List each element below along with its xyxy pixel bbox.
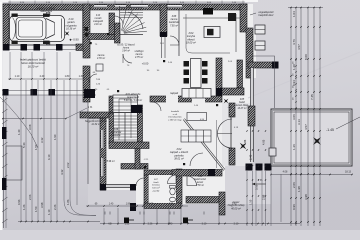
svg-text:13.27 m²: 13.27 m² xyxy=(237,107,246,110)
svg-text:1.70: 1.70 xyxy=(149,204,154,206)
dimension line carport xyxy=(8,78,90,80)
white margin top xyxy=(0,0,258,2)
wall top exterior xyxy=(3,4,247,10)
wall stair hall west xyxy=(115,23,121,43)
wc fixture mosdo xyxy=(85,27,89,31)
dimension line south wall xyxy=(86,205,204,214)
pier carport south 3 xyxy=(49,89,56,96)
svg-text:1.26: 1.26 xyxy=(22,204,26,210)
svg-text:11.32 m²: 11.32 m² xyxy=(91,123,100,126)
window F.06 west 1 xyxy=(101,130,104,148)
room label F.05 xyxy=(236,99,249,110)
kitchen counter top xyxy=(183,13,240,52)
svg-text:1.86: 1.86 xyxy=(126,204,131,206)
wall bathroom south xyxy=(144,203,181,209)
dim number carport 4 xyxy=(79,75,84,78)
dimension numbers bottom xyxy=(108,223,239,226)
svg-text:terasz kőlap: terasz kőlap xyxy=(236,104,249,107)
dimension line lower-left with leader xyxy=(2,108,87,119)
wall stair east xyxy=(138,105,143,142)
small label 05 xyxy=(93,72,96,74)
terrace outline inner xyxy=(274,112,349,163)
wall F.06 east xyxy=(135,148,140,169)
pillar terrace row 3 xyxy=(265,164,272,171)
pier garage south 4 xyxy=(56,44,63,51)
wall living-terrace below door xyxy=(229,148,235,165)
wall kamra-kitchen thin xyxy=(178,10,180,56)
room label F.01 xyxy=(124,93,142,102)
shower corner covered terrace xyxy=(187,176,197,186)
svg-text:1.90: 1.90 xyxy=(53,134,57,140)
svg-text:3.10: 3.10 xyxy=(255,184,259,190)
dimension line terrace south xyxy=(270,174,353,176)
label garage header xyxy=(37,7,57,13)
svg-text:2.06: 2.06 xyxy=(28,194,32,200)
fence post dark 1 xyxy=(2,127,7,139)
svg-text:nappali: nappali xyxy=(170,92,179,95)
room label F.10 garage xyxy=(66,18,78,31)
svg-text:1.98: 1.98 xyxy=(297,186,301,192)
svg-text:0.94: 0.94 xyxy=(292,80,296,86)
svg-text:2.86: 2.86 xyxy=(262,194,266,200)
coffee table living room xyxy=(187,113,207,121)
svg-text:terasz: terasz xyxy=(197,181,204,184)
stairs switchback flight xyxy=(113,95,138,142)
svg-text:1.50: 1.50 xyxy=(34,206,38,212)
svg-text:1.10: 1.10 xyxy=(249,199,253,205)
stair solid fill xyxy=(131,105,142,113)
dimension lines right group xyxy=(288,7,323,226)
terasz 40 fill xyxy=(225,166,271,204)
svg-text:kerámia: kerámia xyxy=(152,185,160,187)
room label F.13 mosdo xyxy=(93,15,104,26)
svg-text:2.40: 2.40 xyxy=(232,204,237,206)
slope label carport xyxy=(88,105,93,109)
lamp symbol living room xyxy=(240,143,246,149)
svg-text:fedett külső: fedett külső xyxy=(194,178,206,181)
wall living-terrace above door xyxy=(229,103,235,117)
room label F.06 xyxy=(111,128,122,137)
terrace fill right xyxy=(271,109,352,166)
level label entry xyxy=(142,62,149,66)
svg-text:fürdő: fürdő xyxy=(154,182,160,184)
window F.06 west 2 xyxy=(101,158,104,176)
pier garage south 5 xyxy=(76,44,84,51)
wall pier living east xyxy=(248,106,255,126)
washbasin xyxy=(170,197,176,202)
lamp symbol dining xyxy=(224,99,229,104)
wall kitchen east xyxy=(246,28,253,78)
svg-text:40.00 m²: 40.00 m² xyxy=(231,207,241,210)
svg-text:4.76: 4.76 xyxy=(292,39,296,45)
sink fixture mosdo xyxy=(85,33,89,37)
wall terrace east step xyxy=(219,192,225,215)
building interior fill kitchen bump xyxy=(246,30,256,78)
extension lines south wall xyxy=(104,208,219,225)
svg-text:háttérháza: háttérháza xyxy=(40,10,52,13)
outdoor gray west strip xyxy=(88,112,100,190)
room label F.02 xyxy=(170,148,189,161)
svg-text:2.02: 2.02 xyxy=(66,162,70,168)
outdoor gray front of south windows xyxy=(88,190,136,204)
svg-text:beépítőtt dész: beépítőtt dész xyxy=(258,14,274,17)
annotation engedelyezett xyxy=(258,11,274,17)
wall stair west xyxy=(109,113,114,144)
label belepo terasz xyxy=(85,117,107,126)
dimension numbers pillar spine xyxy=(243,139,266,205)
dimension line bottom-left xyxy=(18,221,100,223)
svg-text:0.96: 0.96 xyxy=(17,199,21,205)
svg-text:6.15 m²: 6.15 m² xyxy=(152,187,160,190)
dimension line bottom-middle xyxy=(100,223,300,225)
pier carport south 2 xyxy=(31,89,38,96)
wall F.05 west xyxy=(237,60,243,88)
svg-text:1.30: 1.30 xyxy=(79,75,84,78)
label terasz 40 xyxy=(228,201,245,210)
pier living south xyxy=(208,169,215,176)
pier window south 1 xyxy=(100,184,106,191)
svg-text:5.40 m² / 8.04 m²: 5.40 m² / 8.04 m² xyxy=(124,99,142,102)
wall entry west xyxy=(109,96,115,113)
svg-text:F.05: F.05 xyxy=(240,99,245,101)
pier garage south 2 xyxy=(21,44,28,51)
planter box left xyxy=(6,146,22,180)
fence line left boundary xyxy=(2,95,8,228)
svg-text:◆ -0.90: ◆ -0.90 xyxy=(69,38,79,42)
svg-text:beton térkő burkolat: beton térkő burkolat xyxy=(21,61,45,65)
svg-text:3.06: 3.06 xyxy=(292,114,296,120)
driveway edge diagonal xyxy=(0,97,38,148)
F.05 east boundary line xyxy=(274,61,276,108)
svg-text:+0.00: +0.00 xyxy=(142,62,149,66)
svg-text:4.75 m²: 4.75 m² xyxy=(135,56,143,59)
wall dining south xyxy=(222,88,244,95)
wall mosdo east xyxy=(109,13,115,35)
kitchen room inner boundary xyxy=(186,14,230,53)
room label F.04 konyha xyxy=(186,32,196,45)
svg-text:-1.45: -1.45 xyxy=(326,128,334,132)
label nappali xyxy=(170,92,179,95)
window in top wall 2 xyxy=(115,5,126,8)
svg-text:2.26: 2.26 xyxy=(148,223,153,226)
building interior fill garage block xyxy=(3,4,90,95)
svg-text:6.10: 6.10 xyxy=(47,154,51,160)
room label kamra small xyxy=(97,54,105,60)
carport south edge lines xyxy=(2,91,96,96)
svg-text:18.13: 18.13 xyxy=(345,171,352,174)
svg-text:lemezkazettás: lemezkazettás xyxy=(168,116,181,119)
dimension tick line living east xyxy=(216,120,218,168)
wall garage-house divider lower xyxy=(83,66,90,102)
small label 120 xyxy=(96,84,101,86)
slope label xyxy=(258,178,263,182)
pier window south 2 xyxy=(130,184,136,191)
building interior fill main house xyxy=(88,4,253,204)
sideboard xyxy=(182,89,211,99)
pillar terrace row 2 xyxy=(256,164,263,171)
wall living south segment xyxy=(172,170,222,177)
pier garage south 3 xyxy=(34,44,41,51)
svg-text:2.26: 2.26 xyxy=(169,204,174,206)
svg-text:2.26: 2.26 xyxy=(53,204,57,210)
section marker A2 xyxy=(183,218,193,224)
svg-text:5.44: 5.44 xyxy=(22,142,26,148)
svg-text:F.08: F.08 xyxy=(198,176,203,178)
kitchen chimney black block xyxy=(203,8,213,15)
svg-text:1.20: 1.20 xyxy=(292,64,296,70)
svg-text:3.32: 3.32 xyxy=(40,137,44,143)
pier carport south 1 xyxy=(3,89,9,96)
svg-text:4.08: 4.08 xyxy=(283,171,288,174)
fence post dark 2 xyxy=(2,178,7,190)
radiator box right wall 2 xyxy=(255,41,265,50)
bathroom interior fill xyxy=(149,175,177,203)
dimension numbers right group xyxy=(292,11,314,210)
wall belepo terasz north xyxy=(80,112,115,118)
area label F.06 xyxy=(105,160,115,163)
svg-text:1.86: 1.86 xyxy=(66,199,70,205)
svg-text:3.64 m²: 3.64 m² xyxy=(122,50,130,53)
pier garage south 1 xyxy=(3,44,10,51)
wall dining south toward terrace xyxy=(248,62,275,68)
svg-text:2.40: 2.40 xyxy=(249,154,253,160)
door opening entry-living 1 xyxy=(166,96,178,103)
svg-text:±0.00 / 12 lépcső: ±0.00 / 12 lépcső xyxy=(117,45,135,47)
svg-text:a 180 cm mag.: a 180 cm mag. xyxy=(168,119,182,121)
wall below stair xyxy=(109,142,149,149)
level label garage xyxy=(69,38,79,42)
svg-text:4.05: 4.05 xyxy=(262,139,266,145)
svg-text:kandalló: kandalló xyxy=(171,111,180,113)
svg-text:1.10: 1.10 xyxy=(15,75,20,78)
dense ticks window dim line xyxy=(295,59,296,108)
lamp symbol garage xyxy=(65,31,70,36)
covered terrace F.05 fill xyxy=(222,103,253,166)
svg-text:1.10: 1.10 xyxy=(47,209,51,215)
dim label terrace south xyxy=(283,171,288,174)
svg-text:1 %: 1 % xyxy=(88,105,93,109)
svg-text:1.40: 1.40 xyxy=(17,129,21,135)
svg-text:15.96 m²: 15.96 m² xyxy=(105,160,115,163)
radiator box right wall 1 xyxy=(255,25,265,34)
wall bathroom north xyxy=(144,170,177,175)
svg-text:4.70 m²: 4.70 m² xyxy=(97,57,105,60)
pier bathroom SW corner xyxy=(130,203,136,211)
dim number carport 3 xyxy=(65,75,70,78)
double door living-terrace xyxy=(218,116,233,151)
svg-text:4.57: 4.57 xyxy=(304,124,308,130)
dining chairs right column xyxy=(202,61,208,84)
car in garage xyxy=(10,12,65,45)
extension line terrace left xyxy=(280,174,282,222)
svg-text:2.10: 2.10 xyxy=(234,223,239,226)
wall top-right corner vertical xyxy=(240,4,247,32)
pier F.05 west bottom xyxy=(237,88,244,95)
terrace outline outer xyxy=(271,109,352,166)
garage door opening lines xyxy=(9,46,83,50)
scan crease diagonal artifact xyxy=(248,52,360,98)
tick slashes pillar spine xyxy=(246,130,266,210)
svg-text:parketta: parketta xyxy=(111,134,121,137)
wall mosdo south xyxy=(88,34,115,40)
wall entry-living xyxy=(150,96,222,102)
level label terrace xyxy=(326,128,334,132)
section marker A1 xyxy=(124,218,134,224)
svg-text:3.10: 3.10 xyxy=(202,223,207,226)
svg-text:-0.15: -0.15 xyxy=(228,107,234,109)
room label F.08 terasz xyxy=(194,176,206,187)
svg-text:2.40: 2.40 xyxy=(40,75,45,78)
svg-text:7.50 m²: 7.50 m² xyxy=(196,184,204,187)
room label F.08 kamra xyxy=(169,15,180,27)
white margin left xyxy=(0,0,3,230)
leader line engedelyezett xyxy=(250,13,256,15)
window living east xyxy=(251,68,254,162)
dimension numbers south wall xyxy=(95,204,237,206)
small label 785 xyxy=(96,79,101,81)
terrace outline mid xyxy=(273,111,351,165)
pier dining divider south xyxy=(216,88,222,96)
garage interior boundary xyxy=(10,11,83,45)
toilet xyxy=(170,186,176,195)
dim number carport 1 xyxy=(15,75,20,78)
svg-text:0.96: 0.96 xyxy=(292,204,296,210)
svg-text:1.80: 1.80 xyxy=(65,75,70,78)
svg-text:F.13: F.13 xyxy=(96,15,101,17)
pillar terrace row 1 xyxy=(246,164,253,171)
interior door swing arcs xyxy=(89,16,203,186)
svg-text:7.50 m²: 7.50 m² xyxy=(170,24,178,27)
room label szelfogo xyxy=(135,50,145,59)
pier carport corner xyxy=(84,89,95,98)
svg-text:mosdó: mosdó xyxy=(95,18,103,20)
annotation kandallo xyxy=(168,111,182,121)
svg-text:1.40: 1.40 xyxy=(168,223,173,226)
svg-text:16.20 m²: 16.20 m² xyxy=(28,64,39,68)
room label F.07 xyxy=(152,179,161,192)
svg-text:fedett gépkocsi beálló: fedett gépkocsi beálló xyxy=(20,58,47,62)
wall bathroom east xyxy=(176,169,182,204)
wall F.06 south-east segment xyxy=(121,164,148,170)
svg-text:7.45: 7.45 xyxy=(310,94,314,100)
door opening entry-living 2 xyxy=(192,96,205,103)
stairs winder fan upper xyxy=(120,6,147,35)
svg-text:pad.fűt: pad.fűt xyxy=(152,189,160,192)
terrace step notch xyxy=(269,148,276,156)
svg-text:16.36 m²: 16.36 m² xyxy=(66,28,76,31)
svg-text:18.00 m²: 18.00 m² xyxy=(186,42,196,45)
svg-text:4.16 m²: 4.16 m² xyxy=(94,23,102,26)
extension lines pillars xyxy=(247,171,271,226)
dimension numbers left-bottom xyxy=(17,124,70,215)
washing machine box kamra xyxy=(96,64,103,71)
leader line terrace xyxy=(336,117,360,129)
diagonal guide line living room xyxy=(183,119,225,171)
top edge dimension numbers xyxy=(20,2,237,4)
window in top wall 4 xyxy=(163,5,182,8)
room label stairs xyxy=(117,45,135,53)
svg-text:kamra: kamra xyxy=(123,48,130,50)
svg-text:4.57: 4.57 xyxy=(297,44,301,50)
wall bathroom west xyxy=(144,175,149,205)
wall dining divider xyxy=(216,58,222,96)
pier dining south wall end xyxy=(272,62,279,69)
dining chairs left column xyxy=(184,61,190,84)
svg-text:melegedő: melegedő xyxy=(93,21,104,23)
lamp symbol terrace xyxy=(313,137,321,145)
window south band xyxy=(106,185,130,188)
top edge dimension marks xyxy=(8,1,245,4)
wall covered terrace south xyxy=(186,197,219,204)
svg-text:1.26: 1.26 xyxy=(292,144,296,150)
svg-text:2.06: 2.06 xyxy=(292,182,296,188)
svg-text:3.98: 3.98 xyxy=(40,202,44,208)
pier stair-kamra wall bottom xyxy=(160,32,167,37)
svg-text:1.86: 1.86 xyxy=(243,139,247,145)
svg-text:fedett: fedett xyxy=(239,101,245,104)
kitchen island xyxy=(204,27,220,38)
slope arrow xyxy=(252,183,266,185)
svg-text:4.32: 4.32 xyxy=(60,169,64,175)
svg-text:3.98: 3.98 xyxy=(304,194,308,200)
svg-text:8.00: 8.00 xyxy=(304,54,308,60)
wall stair-kamra divider xyxy=(160,4,167,36)
misc small dimension labels xyxy=(88,43,239,161)
svg-text:-2.11: -2.11 xyxy=(144,159,150,161)
dimension extension lines left-bottom xyxy=(21,80,96,221)
shower bathroom NE xyxy=(168,175,177,184)
svg-text:1.04: 1.04 xyxy=(292,11,296,17)
svg-text:3.13: 3.13 xyxy=(297,119,301,125)
dense numbers window dim line xyxy=(293,61,295,100)
wall left garage xyxy=(3,4,9,50)
socket marks on walls xyxy=(90,33,219,168)
dining table xyxy=(191,59,202,88)
wall garage-house divider upper xyxy=(83,4,90,58)
wall F.06 west xyxy=(100,118,106,190)
sofa living room xyxy=(181,130,211,142)
window in top wall 1 xyxy=(94,5,107,8)
dim label bottom right xyxy=(345,171,352,174)
dimension ticks right group xyxy=(290,7,321,223)
west facade boundary line xyxy=(87,102,89,184)
dim number carport 2 xyxy=(40,75,45,78)
svg-text:1.40: 1.40 xyxy=(109,204,114,206)
door frame lines stair-kamra xyxy=(162,36,166,58)
svg-text:3.08: 3.08 xyxy=(28,124,32,130)
label carport xyxy=(20,58,47,69)
extension lines carport xyxy=(10,52,70,79)
window in top wall 3 xyxy=(131,5,148,8)
terrace upper edge line xyxy=(253,56,275,61)
svg-text:38.01 m²: 38.01 m² xyxy=(174,158,184,161)
